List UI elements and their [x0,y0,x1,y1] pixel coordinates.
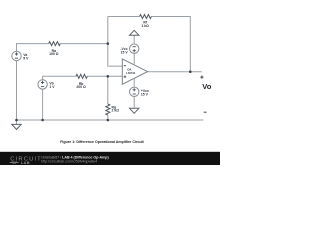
wire Va bottom down [16,61,18,120]
label Ra 100 Ohm [49,49,59,56]
svg-text:2 kΩ: 2 kΩ [112,109,120,113]
wire Rb to non-inverting input [87,75,122,77]
op-amp plus input marker [124,76,127,79]
resistor Ra [49,42,61,46]
junction node at output feedback [189,70,192,73]
svg-text:Figure 1: Difference Operation: Figure 1: Difference Operational Amplifi… [60,140,144,144]
resistor Rf [140,15,152,19]
svg-text:200 Ω: 200 Ω [76,85,86,89]
ground bottom left [16,120,18,124]
op-amp top power pin [133,53,135,64]
voltage source Va [12,51,21,60]
svg-text:15 V: 15 V [121,50,129,54]
svg-text:http://circuitlab.com/c/59fv4q: http://circuitlab.com/c/59fv4qpw8e4 [41,159,97,163]
wire top feedback left [108,16,140,18]
wire Rg to ground rail [107,115,109,120]
wire top feedback right and down to output [151,17,190,72]
output terminal minus [204,111,207,113]
voltage source Vb [38,80,47,89]
wire Vb bottom down [42,89,44,120]
wire Vb top to Rb [43,76,76,79]
junction node rail Vb [41,119,44,122]
resistor Rb [76,74,87,78]
svg-text:1 V: 1 V [49,85,55,89]
footer logo resistor glyph [10,162,19,164]
label -Vcc 15 V [120,47,128,55]
ground above -Vcc (flipped) [130,30,139,35]
svg-text:15 V: 15 V [141,92,149,96]
voltage source +Vcc [130,87,139,96]
op-amp minus input marker [124,65,126,67]
svg-text:LM741: LM741 [126,71,135,75]
svg-text:100 Ω: 100 Ω [49,52,59,56]
junction node rail Rg [107,119,110,122]
wire +Vcc to ground [133,97,135,109]
svg-text:LAB: LAB [21,160,30,165]
junction node at non-inverting input [107,75,110,78]
label Rg 2 kOhm [112,105,120,112]
junction node rail Va [15,119,18,122]
wire Va top to Ra [17,44,49,52]
footer bar [0,152,220,165]
label Rf 1 kOhm [141,20,149,27]
ground below +Vcc [130,108,139,113]
label Rb 200 Ohm [76,82,86,89]
svg-text:5 V: 5 V [23,56,29,60]
wire Ra to inverting node [60,43,108,45]
junction node at inverting input [107,42,110,45]
op-amp bottom power pin [133,79,135,88]
wire inverting vertical (top wire to op-amp minus) [108,17,123,67]
label Vb 1 V [49,82,55,90]
resistor Rg [106,104,110,115]
label OA LM741 [126,67,135,75]
wire op-amp output [148,71,202,73]
label Va 5 V [23,53,29,61]
voltage source -Vcc [130,44,139,53]
wire node B down to Rg [107,76,109,104]
op-amp U1 LM741 [122,59,147,84]
svg-text:Vo: Vo [202,82,212,91]
svg-text:1 kΩ: 1 kΩ [141,24,149,28]
output terminal plus [200,76,203,79]
label +Vcc 15 V [141,89,149,97]
wire bottom rail [17,119,204,121]
wire -Vcc to ground [133,35,135,44]
